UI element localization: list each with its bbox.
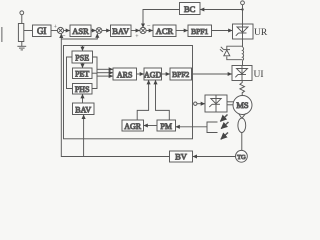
shaft coupling to TG: [241, 133, 243, 151]
wire BPF2 to UI: [192, 73, 232, 75]
wire supply to UR: [242, 5, 244, 24]
wire ASR to sum2: [91, 30, 96, 32]
block GI: [33, 25, 52, 37]
svg-text:UR: UR: [254, 28, 268, 38]
wire BC to sum3: [143, 10, 180, 28]
block BV: [170, 151, 193, 162]
light arrow 2: [221, 122, 228, 129]
shaft MS to coupling: [239, 113, 246, 118]
wire AGD to BPF2: [162, 73, 170, 75]
svg-text:MS: MS: [236, 100, 249, 110]
freewheeling diode loop: [220, 46, 243, 60]
wire speed feedback BV to sum1: [61, 34, 169, 157]
svg-text:BPF2: BPF2: [172, 70, 189, 79]
svg-text:BV: BV: [175, 152, 188, 162]
position sensor bracket: [207, 122, 218, 133]
svg-text:BC: BC: [184, 4, 196, 14]
potentiometer RP: [18, 24, 23, 42]
terminal input: [20, 11, 24, 15]
block PHS: [73, 84, 93, 95]
wire sum1 to ASR: [64, 30, 70, 32]
wire bus to ARS triple arrows: [97, 69, 113, 76]
block PET: [73, 68, 93, 79]
block BAV: [111, 25, 132, 37]
svg-text:PSE: PSE: [75, 53, 89, 62]
block BPF1: [188, 25, 212, 37]
wire terminal to excitation box: [197, 103, 205, 105]
wire BAV2 input from speed line: [83, 115, 85, 157]
svg-text:ACR: ACR: [156, 26, 174, 36]
svg-text:BAV: BAV: [112, 26, 130, 36]
svg-text:ARS: ARS: [117, 70, 133, 79]
svg-text:+: +: [135, 34, 139, 40]
wire zigzag UI to MS: [240, 81, 245, 96]
terminal supply: [241, 1, 245, 5]
wire PM to AGR: [144, 125, 157, 127]
wire ARS to AGD: [137, 73, 144, 75]
wire UR down: [242, 39, 244, 46]
svg-text:BAV: BAV: [75, 105, 91, 114]
summing junction 3: [140, 27, 146, 33]
svg-text:AGD: AGD: [144, 70, 162, 79]
svg-text:PHS: PHS: [75, 85, 90, 94]
excitation rectifier: [205, 95, 227, 112]
coupling ellipse: [238, 118, 246, 132]
wire sensor to PM: [176, 126, 207, 128]
summing junction 1: [57, 27, 63, 33]
wire pot to GI: [24, 30, 33, 32]
summing junction 2: [96, 28, 102, 34]
svg-text:PET: PET: [75, 70, 89, 79]
terminal excitation: [194, 102, 197, 105]
wire sum3 to ACR: [146, 30, 153, 32]
scan artifact left edge: [1, 27, 3, 42]
svg-text:+: +: [54, 25, 58, 31]
wire right bus: [92, 57, 97, 89]
svg-text:PM: PM: [160, 122, 172, 131]
subsystem box: [64, 46, 193, 139]
wire PM up into AGD: [156, 80, 170, 120]
block ARS: [113, 68, 137, 80]
wire: [21, 15, 23, 24]
wire BPF1 to UR: [212, 30, 233, 32]
svg-text:−: −: [147, 22, 151, 29]
wire stub into PSE: [82, 46, 84, 51]
wire BAV2 to PHS: [82, 94, 84, 103]
wire BAV to sum3: [131, 30, 140, 32]
wire excitation to MS field: [227, 102, 234, 105]
rectifier UR: [233, 24, 254, 39]
wire: [21, 42, 23, 47]
block BC: [180, 3, 201, 15]
svg-text:TG: TG: [237, 154, 246, 161]
wire PSE to PET: [82, 63, 84, 68]
wire feedback branch to sum2: [61, 34, 97, 39]
wire TG to BV: [193, 156, 236, 158]
block ASR: [70, 25, 91, 37]
block ACR: [153, 25, 176, 37]
light arrow 1: [220, 115, 227, 122]
block PSE: [72, 51, 93, 63]
svg-text:BPF1: BPF1: [191, 27, 208, 36]
block BAV2: [73, 103, 95, 115]
junction dot: [241, 8, 243, 10]
wire ACR to BPF1: [176, 30, 188, 32]
svg-text:ASR: ASR: [72, 26, 89, 36]
svg-text:GI: GI: [37, 26, 47, 36]
ground: [17, 46, 26, 50]
wire AGR up into AGD: [137, 80, 148, 120]
light arrow 3: [221, 133, 228, 140]
block PM: [157, 120, 176, 131]
tachogenerator TG: [236, 150, 248, 162]
wire GI to sum1: [51, 30, 57, 32]
block BPF2: [170, 68, 192, 80]
wire current feedback into BC: [200, 9, 242, 11]
svg-text:UI: UI: [254, 70, 264, 80]
inverter UI: [232, 66, 252, 81]
wire left bus bracket: [67, 57, 73, 89]
wire sum2 to BAV: [102, 30, 110, 32]
block AGR: [122, 120, 144, 131]
motor MS: [233, 96, 252, 115]
inductor Ld: [243, 46, 244, 66]
block AGD: [144, 68, 162, 80]
svg-text:AGR: AGR: [124, 122, 142, 131]
